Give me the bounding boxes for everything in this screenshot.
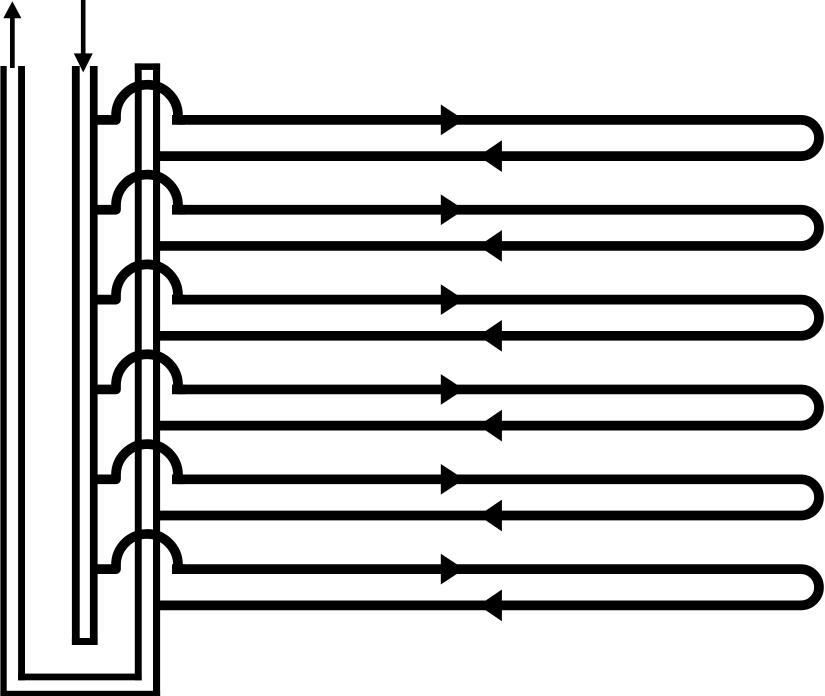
loop 2 supply stub and crossover arch over riser [93,175,185,210]
outlet pipe outer wall (far left, V1) [0,66,6,696]
inlet distribution pipe left wall (V3) [72,66,80,645]
inlet distribution pipe right wall (V4) [90,66,98,645]
loop 3 return arrowhead [479,320,502,352]
riser left wall (V5) [135,63,142,680]
loop 4 supply arrowhead [441,374,464,405]
loop 1 return arrowhead [479,140,502,172]
riser right wall / outer wall (V6) [153,63,160,696]
outlet arrowhead (up) [3,1,21,18]
loop 3 hairpin: supply line, right U-bend, return line [154,300,819,336]
loop 5 supply stub and crossover arch over riser [93,444,185,479]
inlet distribution pipe bottom cap [72,638,98,645]
loop 1 hairpin: supply line, right U-bend, return line [154,120,819,156]
loop 2 supply arrowhead [441,194,464,225]
loop 4 hairpin: supply line, right U-bend, return line [154,389,819,425]
loop 3 supply stub and crossover arch over riser [93,264,185,299]
loop 6 supply stub and crossover arch over riser [93,534,185,569]
inlet arrow shaft (down) [81,0,86,54]
loop 6 hairpin: supply line, right U-bend, return line [154,569,819,605]
bottom U outer bar [0,691,160,696]
loop 5 return arrowhead [479,500,502,532]
riser top cap [135,63,160,70]
inlet arrowhead (down) [74,53,93,72]
loop 2 return arrowhead [479,230,502,262]
loop 4 supply stub and crossover arch over riser [93,354,185,389]
loop 5 hairpin: supply line, right U-bend, return line [154,479,819,515]
outlet arrow shaft (up) [10,18,15,69]
loop 5 supply arrowhead [441,464,464,495]
loop 6 supply arrowhead [441,554,464,585]
loop 6 return arrowhead [479,590,502,622]
loop 1 supply stub and crossover arch over riser [93,85,185,120]
loop 2 hairpin: supply line, right U-bend, return line [154,210,819,246]
outlet pipe inner wall (V2) [18,66,25,680]
loop 1 supply arrowhead [441,105,464,136]
loop 3 supply arrowhead [441,284,464,315]
bottom U inner bar (riser to outlet pipe) [18,674,142,681]
loop 4 return arrowhead [479,410,502,442]
